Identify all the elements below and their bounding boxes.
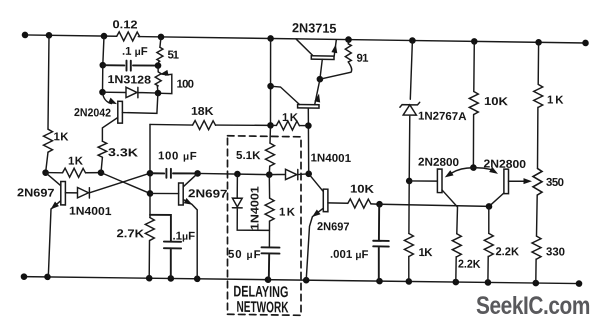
- node: top rail end dot right: [582, 40, 589, 47]
- wire: 91 bottom to node V: [320, 61, 352, 79]
- node E: [100, 62, 107, 69]
- svg-text:51: 51: [168, 49, 180, 61]
- capacitor .001uF: [373, 204, 389, 281]
- wire: node U to node T (base line): [380, 204, 490, 206]
- wire: 2N3715 base down to node V: [320, 59, 322, 79]
- node H: [155, 90, 162, 97]
- wire: emitter arc from node S: [473, 168, 490, 170]
- wire: node E down to node F: [102, 65, 104, 92]
- svg-text:0.12: 0.12: [113, 19, 138, 31]
- svg-text:10K: 10K: [350, 184, 375, 196]
- node: top rail dot x104: [101, 33, 108, 40]
- resistor 51: [157, 47, 163, 61]
- wire: base to diode: [65, 192, 77, 194]
- diode 1N4001 (left): [78, 188, 90, 199]
- resistor 1K (top middle): [271, 124, 277, 126]
- wire: driver emitter up to node V with arrow: [315, 79, 320, 104]
- node C: [42, 169, 49, 176]
- resistor 2.7K: [145, 217, 154, 240]
- emitter arrow of 2N697 third: [310, 209, 320, 219]
- svg-text:1K: 1K: [547, 94, 564, 106]
- wire: diode cathode to node J (cross-couple): [89, 172, 150, 193]
- node: bottom rail end dot right: [576, 280, 583, 287]
- wire: node R down to 1K: [408, 181, 410, 234]
- wire: node D to node K (cross-couple): [101, 173, 150, 194]
- wire: collector to node T: [489, 193, 504, 207]
- wire: emitter down to rail with arrow: [306, 208, 323, 280]
- transistor driver (lower, unlabeled): [298, 104, 319, 108]
- svg-text:1N4001: 1N4001: [250, 185, 262, 230]
- potentiometer 350: [533, 168, 542, 195]
- transistor 2N697 (third): [323, 189, 328, 212]
- resistor 10K (horizontal): [348, 199, 371, 208]
- wire: 2N3715 emitter to rail with arrow: [334, 40, 336, 56]
- svg-text:2N697: 2N697: [317, 221, 350, 233]
- diode 1N4001 (horizontal, right of box): [269, 169, 308, 180]
- node 1K5 junction: [305, 122, 312, 129]
- svg-text:2N2042: 2N2042: [74, 107, 111, 120]
- node: bottom dot x197: [194, 275, 201, 282]
- capacitor .1uF (second, horizontal plates): [150, 215, 181, 279]
- wire: pot wiper loop: [161, 74, 172, 94]
- svg-text:.001 μF: .001 μF: [330, 249, 368, 262]
- node: top rail dot x412: [409, 37, 416, 44]
- diode 1N3128: [103, 87, 159, 98]
- emitter arrow of 2N697 left: [49, 202, 59, 212]
- svg-text:.1μF: .1μF: [172, 230, 195, 242]
- wire: 2.7K bottom to rail: [148, 240, 150, 278]
- svg-text:91: 91: [357, 53, 370, 65]
- node: top rail end dot left: [22, 32, 29, 39]
- svg-text:1K: 1K: [279, 206, 296, 218]
- node J: [147, 170, 154, 177]
- wire: collector to node L: [183, 173, 197, 187]
- node: bottom dot x533: [533, 280, 540, 287]
- transistor 2N697 (left): [61, 181, 66, 204]
- transistor 2N697 (second): [179, 183, 184, 205]
- wire: node C to 1K horizontal: [46, 172, 63, 174]
- svg-text:18K: 18K: [191, 106, 214, 118]
- transistor 2N2800 (second): [504, 169, 509, 194]
- wire: collector to node C: [46, 173, 61, 186]
- capacitor 100uF: [150, 169, 198, 179]
- node N: [267, 83, 274, 90]
- svg-text:2N2800: 2N2800: [418, 156, 459, 169]
- node D: [98, 169, 105, 176]
- node U: [376, 201, 383, 208]
- wire: 5.1K bottom to node O: [268, 166, 270, 175]
- wire: x270 vertical rail to 18K junction: [270, 38, 272, 125]
- wire: rail x161 down to 51: [160, 37, 161, 47]
- top rail wire: [25, 35, 586, 43]
- node: bottom dot x409: [406, 278, 413, 285]
- svg-text:2.7K: 2.7K: [117, 228, 145, 240]
- capacitor .1uF (top): [103, 60, 158, 71]
- svg-text:10K: 10K: [484, 96, 509, 108]
- wire: collector to node Q: [309, 174, 324, 192]
- node P: [234, 171, 241, 178]
- node G: [155, 62, 162, 69]
- wire: right column from rail to 1K: [537, 42, 539, 84]
- svg-text:50 μF: 50 μF: [228, 249, 261, 261]
- svg-text:1N3128: 1N3128: [108, 74, 152, 87]
- wire: node M down to 5.1K: [269, 125, 272, 143]
- wire: 1K bottom to node C: [46, 152, 48, 173]
- wire: pot bottom to node H: [156, 86, 159, 93]
- resistor 0.12 (in top rail): [117, 32, 140, 41]
- svg-text:NETWORK: NETWORK: [236, 299, 289, 317]
- resistor 1K (top right): [534, 84, 543, 107]
- svg-text:2N697: 2N697: [188, 188, 228, 201]
- svg-text:.1 μF: .1 μF: [122, 46, 148, 58]
- wire: 1K to node D: [86, 171, 101, 174]
- node: top rail dot x161: [158, 34, 165, 41]
- node: top rail dot x270: [267, 35, 274, 42]
- wire: node T down to 2.2K: [488, 206, 490, 233]
- emitter arrow of 2N2042: [108, 98, 118, 107]
- resistor 330: [532, 236, 541, 259]
- transistor 2N2042: [118, 101, 123, 123]
- wire: node G down to pot: [157, 66, 159, 72]
- svg-text:2N697: 2N697: [17, 187, 55, 200]
- wire: base to 10K: [328, 202, 348, 204]
- resistor 10K (right vertical): [473, 41, 476, 91]
- svg-text:1N4001: 1N4001: [311, 152, 352, 165]
- resistor 3.3K: [98, 141, 107, 157]
- svg-text:1K: 1K: [282, 112, 299, 124]
- transistor 2N2800 (first): [437, 169, 442, 193]
- resistor 91: [347, 40, 349, 44]
- wire: mid bus L to O: [198, 173, 270, 174]
- node S: [470, 164, 477, 171]
- node: bottom dot x268: [265, 276, 272, 283]
- node M (18K/1K junction): [267, 122, 274, 129]
- node: top rail dot x538: [535, 39, 542, 46]
- node V: [317, 76, 324, 83]
- svg-text:3.3K: 3.3K: [108, 147, 139, 159]
- node: bottom rail end dot left: [21, 273, 28, 280]
- node: top rail dot x474: [471, 38, 478, 45]
- emitter arrow of driver: [314, 93, 322, 103]
- wiper arrow of pot 100: [159, 70, 169, 78]
- emitter arrow of 2N2800 second: [489, 167, 499, 177]
- svg-text:1K: 1K: [54, 131, 70, 143]
- node: bottom dot x380: [376, 278, 383, 285]
- svg-text:SeekIC.com: SeekIC.com: [476, 292, 590, 320]
- node F: [99, 89, 106, 96]
- node: bottom dot x455: [453, 279, 460, 286]
- zener 1N2767A: [400, 40, 420, 181]
- svg-text:100 μF: 100 μF: [158, 150, 197, 163]
- wire: 2N2042 emitter from node F: [103, 92, 112, 103]
- wire: 18K row: [150, 124, 271, 127]
- resistor 1K (in box): [268, 175, 270, 199]
- node: top rail dot B x49: [46, 32, 53, 39]
- wire: base to pot wiper arrow: [509, 180, 527, 183]
- resistor 1K (below zener): [404, 233, 413, 256]
- svg-text:1K: 1K: [419, 247, 434, 259]
- node: bottom dot x47: [44, 274, 51, 281]
- svg-text:100: 100: [177, 79, 195, 91]
- node: bottom dot x149: [146, 275, 153, 282]
- wire: 51 to node G: [157, 61, 160, 65]
- emitter arrow of 2N2800 first: [443, 170, 453, 180]
- svg-text:5.1K: 5.1K: [236, 150, 261, 162]
- bottom rail wire: [24, 276, 579, 285]
- wire: 2N2042 collector down to 3.3K: [102, 117, 117, 141]
- resistor 2.2K (second): [484, 233, 493, 256]
- node Q: [305, 170, 312, 177]
- wire: 3.3K bottom to node D: [101, 157, 102, 172]
- capacitor 50uF: [262, 247, 280, 280]
- wire: emitter with arrow: [48, 200, 61, 277]
- transistor 2N3715: [311, 56, 334, 60]
- potentiometer 100: [155, 72, 161, 86]
- svg-text:1N2767A: 1N2767A: [418, 110, 467, 123]
- node K: [147, 190, 154, 197]
- wire: collector down to 2.2K: [442, 190, 458, 234]
- node L: [194, 170, 201, 177]
- node T: [486, 203, 493, 210]
- wire: 1K bottom to 50uF: [268, 221, 270, 247]
- svg-text:1K: 1K: [68, 155, 84, 167]
- wire: driver collector to node N: [271, 86, 300, 104]
- wire: 18K left corner down through J,K to 2.7K: [149, 124, 151, 217]
- wire: rail x104 down to node E: [103, 36, 104, 65]
- resistor 1K (left vertical): [44, 129, 53, 152]
- resistor 18K: [193, 120, 216, 129]
- wire: base from node R: [409, 180, 437, 183]
- wire: base from node K: [150, 192, 179, 195]
- wire: x308 vertical from driver base to node Q: [307, 108, 309, 174]
- wire: left column from rail x49 down to 1K: [48, 35, 49, 129]
- node R: [406, 178, 413, 185]
- node: bottom dot x170: [168, 275, 175, 282]
- svg-text:2.2K: 2.2K: [496, 246, 520, 258]
- emitter arrow of 2N697 second: [184, 198, 194, 207]
- svg-text:1N4001: 1N4001: [69, 205, 112, 218]
- svg-text:330: 330: [546, 246, 565, 258]
- svg-text:2.2K: 2.2K: [458, 259, 481, 271]
- resistor 1K (horizontal): [63, 168, 86, 177]
- diode 1N4001 (vertical, in box): [232, 174, 269, 231]
- wire: 2N2042 base to node H: [122, 93, 157, 114]
- node: top rail dot x348: [345, 36, 352, 43]
- node O: [266, 171, 273, 178]
- dashed box DELAYING NETWORK: [228, 136, 302, 316]
- resistor 5.1K: [266, 143, 275, 166]
- wire: emitter down to rail: [183, 200, 197, 279]
- emitter arrow of 2N3715: [331, 44, 338, 53]
- wire: 2N3715 collector to rail: [296, 39, 313, 56]
- wire: emitter arc from node S: [452, 167, 474, 173]
- svg-text:350: 350: [546, 177, 564, 189]
- resistor 2.2K (first): [452, 234, 461, 257]
- node: bottom dot x306: [303, 277, 310, 284]
- svg-text:2N3715: 2N3715: [292, 20, 337, 36]
- wiper arrow into pot 350: [524, 178, 533, 184]
- node: bottom dot x487: [485, 279, 492, 286]
